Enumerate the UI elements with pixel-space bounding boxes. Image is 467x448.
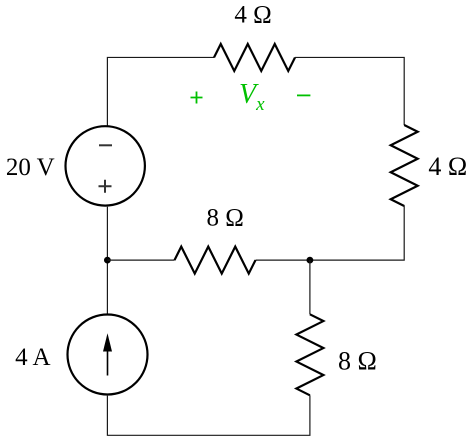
svg-text:4 Ω: 4 Ω xyxy=(428,152,467,181)
wire bottom segment xyxy=(107,395,310,435)
voltage source V1 circle xyxy=(66,126,145,205)
svg-text:4 A: 4 A xyxy=(15,344,50,371)
voltage source minus mark xyxy=(99,144,112,146)
resistor R-bottom 8ohm xyxy=(296,314,323,395)
current source arrow stem xyxy=(107,348,109,376)
node plus Vx (green plus) xyxy=(191,92,203,104)
svg-text:20 V: 20 V xyxy=(6,154,55,181)
wire right-lower segment xyxy=(256,206,405,261)
svg-text:8 Ω: 8 Ω xyxy=(207,205,244,232)
wire top-right segment xyxy=(295,57,404,125)
voltage source plus mark xyxy=(99,180,112,193)
node junction dot right xyxy=(307,257,314,264)
wire top-left segment xyxy=(107,57,214,126)
node minus Vx (green minus) xyxy=(297,94,310,96)
svg-text:8 Ω: 8 Ω xyxy=(338,346,377,375)
current source I1 circle xyxy=(68,315,148,395)
wire middle-left segment xyxy=(107,259,174,261)
resistor R-top 4ohm xyxy=(214,44,295,71)
wire left-middle segment xyxy=(106,207,108,314)
svg-text:4 Ω: 4 Ω xyxy=(234,2,271,29)
current source arrow head xyxy=(103,333,112,351)
resistor R-mid 8ohm xyxy=(175,247,256,274)
wire mid-right vertical segment xyxy=(309,260,311,314)
node junction dot left xyxy=(104,257,111,264)
svg-text:Vx: Vx xyxy=(239,79,265,115)
resistor R-right 4ohm xyxy=(391,125,418,206)
